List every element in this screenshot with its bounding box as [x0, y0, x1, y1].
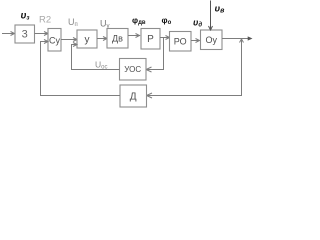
wire ОУ output — [222, 36, 253, 40]
wire input arrow — [2, 32, 15, 36]
block З (setpoint) — [15, 25, 35, 43]
svg-text:Су: Су — [49, 36, 60, 46]
wire СУ to У — [61, 38, 77, 42]
wire У to Дв — [97, 37, 107, 41]
wire feedback right down to Д — [147, 39, 242, 98]
block РО (working organ) — [170, 32, 192, 52]
svg-text:Д: Д — [130, 92, 137, 103]
block Р (reducer) — [141, 29, 160, 50]
svg-text:у: у — [85, 35, 90, 46]
svg-text:3: 3 — [22, 29, 28, 41]
svg-text:Р: Р — [147, 34, 154, 45]
svg-text:Дв: Дв — [112, 34, 123, 44]
wire РО to ОУ — [191, 39, 200, 43]
wire Дв to Р — [128, 34, 140, 38]
wire disturbance arrow into ОУ top — [209, 1, 213, 31]
block ОУ (controlled object) — [201, 30, 223, 50]
block СУ (comparator) — [48, 29, 61, 52]
block У (amplifier) — [77, 30, 97, 48]
svg-text:УОС: УОС — [124, 65, 141, 74]
node junction with up arrow on output line — [240, 39, 244, 43]
svg-text:РО: РО — [174, 37, 187, 47]
wire Р to РО with tap — [160, 36, 170, 40]
wire З to СУ — [35, 32, 48, 36]
wire tap from Р-РО line down into УОС — [146, 38, 164, 73]
wire Д output to СУ — [41, 40, 121, 96]
svg-text:Оу: Оу — [205, 35, 217, 45]
block Д (sensor) — [120, 85, 147, 107]
block УОС (feedback device) — [120, 59, 147, 81]
svg-text:R2: R2 — [39, 15, 51, 26]
block Дв (motor) — [107, 29, 128, 49]
wire УОС output to У — [72, 43, 120, 70]
